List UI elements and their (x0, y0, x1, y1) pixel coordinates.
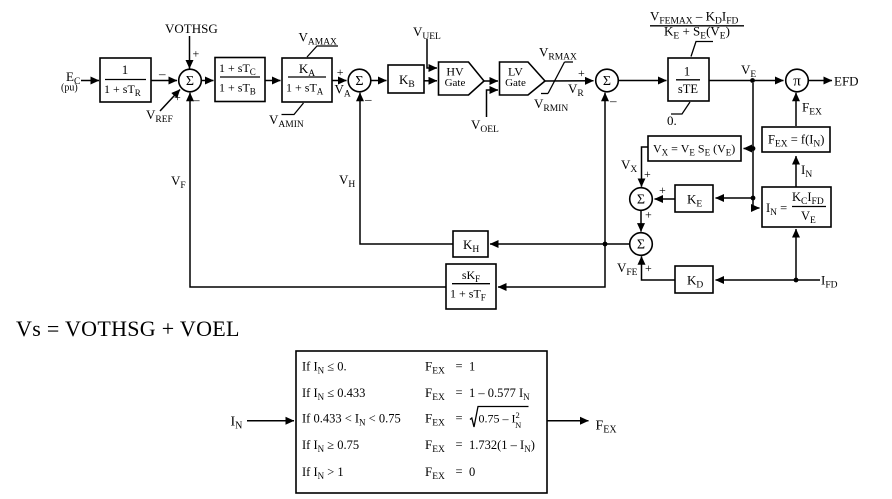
svg-text:KB: KB (399, 72, 415, 90)
wire S3 to integrator (619, 80, 667, 82)
wire S5 output left to KH, junction dot (490, 242, 630, 247)
block FEX lookup table box (296, 351, 547, 493)
block KH (453, 231, 488, 257)
wire VA to summer2, plus sign, VA label (332, 65, 351, 100)
node VX label (621, 157, 637, 175)
wire IN box up to FEX box (795, 156, 797, 187)
wire KD to S5 (642, 256, 676, 280)
svg-text:KD: KD (687, 273, 703, 291)
svg-text:1: 1 (684, 64, 691, 79)
wire sKF output left and up to S1 (190, 93, 446, 287)
svg-text:If IN ≤ 0.433: If IN ≤ 0.433 (302, 386, 365, 402)
svg-text:–: – (158, 66, 166, 81)
wire S4 to S5, plus sign (641, 208, 652, 232)
node VAMAX limit label (299, 30, 339, 58)
svg-text:Σ: Σ (186, 74, 194, 89)
wire HV gate to LV gate (484, 80, 498, 82)
svg-text:VRMIN: VRMIN (534, 96, 568, 114)
svg-text:IN: IN (801, 162, 812, 180)
wire IN into FEX table (247, 420, 294, 422)
wire S2 to KB (371, 80, 387, 82)
wire VFE node up to S3 (604, 93, 606, 244)
svg-text:–: – (364, 92, 372, 107)
svg-text:VE: VE (801, 209, 816, 226)
wire KB to HV gate (424, 80, 437, 82)
svg-text:sKF: sKF (462, 268, 480, 284)
svg-text:FEX: FEX (596, 419, 618, 436)
node Vs equation text (16, 316, 240, 341)
svg-text:VR: VR (568, 81, 584, 99)
svg-text:0.75 – I2N: 0.75 – I2N (479, 410, 522, 430)
svg-text:1 + sTA: 1 + sTA (286, 81, 324, 97)
svg-text:+: + (337, 65, 344, 79)
svg-text:1: 1 (122, 62, 129, 77)
node table row4 condition (302, 438, 359, 454)
node VAMIN limit label (269, 103, 304, 130)
minus sign VH input of S2 (364, 92, 372, 107)
svg-text:–: – (609, 93, 617, 108)
svg-text:+: + (193, 47, 200, 61)
node VFE label, plus sign (617, 260, 652, 278)
block KE (675, 185, 713, 212)
wire IFD up into IN box (795, 229, 797, 280)
node EC input label (61, 69, 80, 94)
summing junction S4 (630, 188, 653, 211)
node FEX output label (596, 419, 618, 436)
wire KE to S4 (655, 198, 676, 200)
svg-text:1 + sTC: 1 + sTC (219, 61, 256, 77)
svg-text:=: = (456, 386, 463, 400)
node FEX label under pi (802, 100, 822, 118)
svg-text:FEX: FEX (425, 437, 445, 455)
node table row1 value (425, 359, 475, 377)
svg-text:sTE: sTE (678, 82, 699, 96)
node table row5 value (425, 464, 475, 482)
node VRMIN label (534, 96, 568, 114)
wire VOTHSG down into S1, plus sign (190, 36, 200, 69)
block IN = KC IFD / VE (762, 187, 831, 227)
svg-text:If 0.433 < IN < 0.75: If 0.433 < IN < 0.75 (302, 412, 401, 428)
block KB (388, 65, 424, 93)
block integrator 1/sTE (668, 58, 709, 101)
svg-text:+: + (659, 183, 666, 197)
node VR label (568, 81, 584, 99)
svg-text:=: = (456, 465, 463, 479)
wire pi to EFD (809, 74, 859, 89)
node VUEL label (413, 24, 441, 42)
block FEX = f(IN) (762, 127, 830, 152)
block VX = VE SE (VE) (648, 136, 741, 161)
svg-text:KE: KE (687, 192, 702, 210)
minus sign feedback input of S3 (609, 93, 617, 108)
node IFD label (821, 273, 838, 291)
svg-text:FEX: FEX (802, 100, 822, 118)
svg-text:VREF: VREF (146, 107, 173, 125)
node upper limit label (VFEMAX-KDIFD)/(KE+SE(VE)) (650, 9, 744, 57)
svg-text:If IN ≤ 0.: If IN ≤ 0. (302, 360, 347, 376)
svg-text:1.732(1 – IN): 1.732(1 – IN) (469, 438, 535, 454)
wire IFD to KD, junction dot (716, 278, 821, 283)
svg-text:FEX: FEX (425, 359, 445, 377)
wire S1 to TGR block (202, 80, 214, 82)
svg-text:Σ: Σ (637, 238, 645, 253)
summing junction S2 (348, 69, 371, 92)
svg-text:VX = VE SE (VE): VX = VE SE (VE) (653, 142, 735, 158)
node table row2 condition (302, 386, 365, 402)
summing junction S5 (630, 233, 653, 256)
svg-text:Σ: Σ (603, 74, 611, 89)
svg-text:IN =: IN = (766, 201, 787, 218)
svg-text:1: 1 (469, 360, 475, 374)
node lower limit label 0. (667, 102, 690, 128)
block KD (675, 266, 713, 293)
block sKF/(1+sTF) (446, 264, 496, 309)
svg-text:If IN ≥ 0.75: If IN ≥ 0.75 (302, 438, 359, 454)
svg-text:1 + sTF: 1 + sTF (450, 287, 486, 303)
svg-text:FEX: FEX (425, 385, 445, 403)
svg-text:1 – 0.577 IN: 1 – 0.577 IN (469, 386, 530, 402)
wire FEX box up to pi (795, 93, 797, 126)
node table row1 condition (302, 360, 347, 376)
svg-text:0: 0 (469, 465, 475, 479)
wire integrator to multiplier, VE node dot (709, 78, 784, 83)
node IN label (801, 162, 812, 180)
svg-text:VFE: VFE (617, 260, 638, 278)
svg-text:+: + (645, 208, 652, 222)
summing junction S3 (596, 69, 619, 92)
svg-text:+: + (578, 66, 585, 80)
wire LV gate to summer3, plus sign (545, 66, 594, 81)
wire branch into VX box (744, 148, 754, 150)
limiter slash VRMAX/VRMIN (541, 62, 573, 94)
svg-text:KH: KH (463, 237, 479, 255)
svg-text:(pu): (pu) (61, 83, 78, 94)
node table row4 value (425, 437, 535, 455)
svg-text:–: – (192, 92, 200, 107)
block transducer 1/(1+sTR) (100, 58, 151, 102)
svg-text:Σ: Σ (637, 193, 645, 208)
svg-text:=: = (456, 411, 463, 425)
svg-text:VE: VE (741, 62, 756, 80)
minus sign VF input of S1 (192, 92, 200, 107)
svg-text:0.: 0. (667, 113, 677, 128)
svg-text:EFD: EFD (834, 74, 859, 89)
node VOTHSG label (165, 21, 218, 36)
svg-text:VRMAX: VRMAX (539, 45, 577, 63)
svg-text:VOTHSG: VOTHSG (165, 21, 218, 36)
node table row5 condition (302, 465, 344, 481)
wire VREF diagonal into S1, plus sign (160, 90, 181, 112)
svg-text:VH: VH (339, 172, 355, 190)
svg-text:VX: VX (621, 157, 637, 175)
svg-text:+: + (644, 167, 651, 181)
svg-text:π: π (793, 73, 801, 89)
svg-text:VAMAX: VAMAX (299, 30, 338, 48)
wire VUEL into HV gate (427, 39, 437, 68)
node VOEL label (471, 117, 499, 135)
block LV gate (500, 62, 546, 95)
wire VFE node down and left to sKF block (498, 244, 605, 287)
svg-text:FEX: FEX (425, 411, 445, 429)
block regulator KA/(1+sTA) (282, 58, 332, 102)
svg-text:VOEL: VOEL (471, 117, 499, 135)
node table row3 value with radical (425, 407, 529, 431)
svg-text:IN: IN (231, 415, 243, 432)
plus sign KE input of S4 (659, 183, 666, 197)
wire KH output left and up to S2 (360, 93, 453, 244)
node table row2 value (425, 385, 530, 403)
wire transducer to summer1, minus sign (151, 66, 177, 81)
svg-text:=: = (456, 438, 463, 452)
node VREF label (146, 107, 173, 125)
svg-text:IFD: IFD (821, 273, 838, 291)
svg-text:=: = (456, 359, 463, 373)
svg-text:Gate: Gate (505, 77, 526, 89)
svg-text:VF: VF (171, 173, 186, 191)
svg-text:Σ: Σ (355, 74, 363, 89)
wire FEX table output (547, 420, 589, 422)
svg-text:1 + sTR: 1 + sTR (104, 82, 141, 98)
node VF label (171, 173, 186, 191)
node VE label (741, 62, 756, 80)
svg-text:KA: KA (299, 61, 315, 79)
wire TGR to regulator block (265, 80, 281, 82)
node IN input label of FEX table (231, 415, 243, 432)
wire EC to transducer (81, 80, 99, 82)
wire VE down the right column into IN box, junction dots (751, 83, 760, 208)
svg-text:+: + (174, 90, 181, 104)
svg-text:+: + (645, 261, 652, 275)
summing junction S1 (179, 69, 202, 92)
wire VX box to summer4, plus sign (642, 147, 652, 187)
block HV gate (439, 62, 485, 95)
node table row3 condition (302, 412, 401, 428)
svg-text:Vs = VOTHSG + VOEL: Vs = VOTHSG + VOEL (16, 316, 240, 341)
svg-text:FEX = f(IN): FEX = f(IN) (768, 133, 824, 150)
svg-text:If IN > 1: If IN > 1 (302, 465, 344, 481)
svg-text:KCIFD: KCIFD (792, 190, 824, 207)
wire VOEL into LV gate (487, 90, 499, 117)
node VH label (339, 172, 355, 190)
svg-text:FEX: FEX (425, 464, 445, 482)
multiplier pi (786, 69, 809, 92)
svg-text:1 + sTB: 1 + sTB (219, 81, 256, 97)
svg-text:Gate: Gate (445, 77, 466, 89)
wire column to KE (716, 197, 754, 199)
node VRMAX label (539, 45, 577, 63)
block TGR (1+sTC)/(1+sTB) (215, 58, 265, 102)
